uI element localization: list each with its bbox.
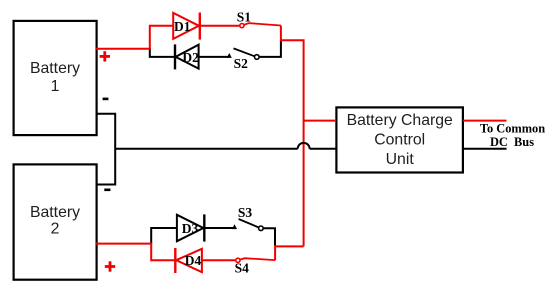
svg-text:D2: D2 <box>182 50 199 65</box>
diode D1 <box>173 13 200 40</box>
svg-text:D3: D3 <box>182 221 199 236</box>
wire S3 to junction B (black) <box>263 228 275 246</box>
wire junction B to red bus (red) <box>275 246 304 260</box>
wire D2 to S2 contact (black) <box>199 56 229 58</box>
switch S4 lever closed (red) <box>240 258 275 260</box>
battery B2 minus terminal label <box>104 189 110 192</box>
svg-text:S4: S4 <box>235 260 250 275</box>
wire B2 plus junction to D3 anode (black) <box>151 228 177 244</box>
switch S2 pivot circle <box>254 55 259 60</box>
battery B2 box <box>14 164 97 279</box>
svg-text:S2: S2 <box>234 56 249 71</box>
wire hop: negative line crossing over red bus (black) <box>298 143 310 149</box>
wire common negative to control unit (black) <box>115 148 298 150</box>
wire negative after hop to control unit (black) <box>310 148 336 150</box>
svg-text:Battery: Battery <box>30 204 80 221</box>
wire junction to D2 anode (black) <box>150 48 175 57</box>
battery B1 minus terminal label <box>103 98 109 101</box>
switch S4 pivot circle <box>236 258 240 262</box>
battery B2 label "Battery 2" <box>30 204 80 237</box>
battery B1 plus terminal label <box>100 51 110 61</box>
wire control unit to DC bus negative (black) <box>463 148 507 150</box>
svg-text:D1: D1 <box>174 19 191 34</box>
svg-text:S1: S1 <box>237 9 252 24</box>
battery B1 label "Battery 1" <box>30 60 80 95</box>
svg-text:Battery: Battery <box>30 60 80 77</box>
wire D1 to S1 (red) <box>200 25 240 27</box>
svg-text:Unit: Unit <box>386 151 415 168</box>
battery B2 plus terminal label <box>105 261 115 271</box>
wire B1 plus to junction (red) <box>96 26 173 49</box>
control unit U1 box "Battery Charge Control Unit" <box>336 107 463 172</box>
wire S2 to node A (black) <box>259 41 281 57</box>
diode D3 <box>177 214 204 241</box>
svg-text:To Common: To Common <box>480 122 545 136</box>
wire red bus to control unit positive (red) <box>304 120 336 122</box>
switch S1 pivot circle <box>240 24 244 28</box>
switch S3 lever <box>239 219 259 228</box>
switch S3 fixed contact arrow <box>232 224 237 229</box>
wire control unit to DC bus positive (red) <box>463 120 507 122</box>
battery B1 box <box>14 21 97 135</box>
diode D2 <box>175 44 199 69</box>
switch S2 fixed contact arrow <box>227 53 232 58</box>
switch S3 pivot circle <box>259 226 264 231</box>
wire D4 to S4 (red) <box>202 259 236 261</box>
switch S2 lever <box>234 48 255 56</box>
node A red bus: S1 down, across, main vertical (red) <box>281 26 304 247</box>
svg-text:Control: Control <box>374 132 425 149</box>
net label "To Common DC Bus" <box>480 122 545 150</box>
wire B1 minus to common node (black) <box>96 114 116 185</box>
wire D3 to S3 contact (black) <box>204 227 233 229</box>
svg-text:1: 1 <box>51 78 60 95</box>
wire B2 plus to junction (red) <box>96 244 175 261</box>
switch S1 lever closed (red) <box>244 23 281 25</box>
svg-text:DC Bus: DC Bus <box>490 135 534 149</box>
svg-text:D4: D4 <box>185 253 202 268</box>
control unit U1 label <box>347 112 453 168</box>
svg-text:Battery Charge: Battery Charge <box>347 112 453 129</box>
diode D4 <box>175 248 202 273</box>
svg-text:2: 2 <box>51 221 60 238</box>
svg-text:S3: S3 <box>238 205 253 220</box>
